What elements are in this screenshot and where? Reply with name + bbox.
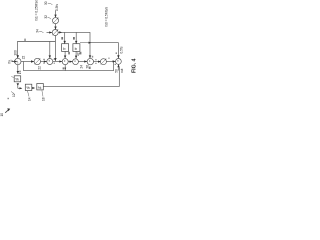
svg-text:0.5fs: 0.5fs [55,4,59,11]
svg-text:22: 22 [22,56,26,60]
svg-text:16: 16 [18,70,22,74]
svg-text:%: % [26,85,30,90]
svg-text:34: 34 [36,29,40,33]
svg-text:0.5fs: 0.5fs [120,46,124,53]
svg-text:%: % [15,77,19,82]
svg-text:12: 12 [12,93,16,97]
svg-text:30: 30 [44,1,48,5]
svg-text:100: 100 [14,50,18,56]
svg-text:10: 10 [0,113,4,117]
svg-text:fs1 = 0.25MS/s: fs1 = 0.25MS/s [35,0,39,21]
svg-text:14: 14 [28,97,32,101]
svg-text:b: b [75,46,78,51]
svg-text:26: 26 [86,65,90,69]
svg-text:fs0 = 0.5MS/s: fs0 = 0.5MS/s [105,7,109,27]
svg-text:out: out [120,68,124,73]
svg-text:%: % [38,85,42,90]
svg-text:50: 50 [115,69,119,73]
svg-text:32: 32 [44,15,48,19]
svg-text:FIG. 4: FIG. 4 [132,58,138,73]
svg-text:b: b [63,46,66,51]
svg-text:18: 18 [42,97,46,101]
svg-text:fin: fin [7,60,11,64]
svg-text:22: 22 [37,66,41,70]
svg-text:24: 24 [80,65,84,69]
